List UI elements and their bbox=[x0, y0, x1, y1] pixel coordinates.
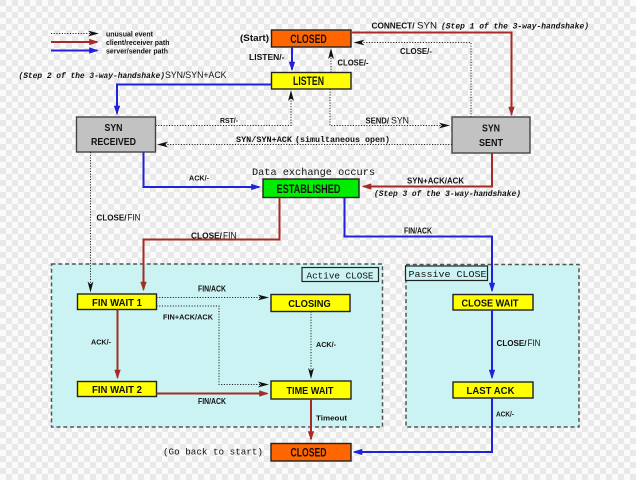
label CONNECT/SYN (Step 1 of the 3-way-handshake) bbox=[372, 21, 590, 32]
label (Go back to start) bbox=[163, 446, 263, 457]
svg-text:CLOSING: CLOSING bbox=[288, 299, 331, 310]
svg-text:ACK/-: ACK/- bbox=[91, 337, 111, 346]
label Timeout bbox=[316, 414, 348, 423]
label box Active CLOSE bbox=[302, 268, 379, 282]
wire FIN/ACK: FIN WAIT 1 to CLOSING (dotted) bbox=[157, 297, 268, 299]
state box LAST ACK bbox=[453, 382, 533, 398]
label box Passive CLOSE bbox=[406, 266, 488, 281]
svg-text:RECEIVED: RECEIVED bbox=[91, 136, 136, 148]
svg-text:FIN/ACK: FIN/ACK bbox=[198, 285, 226, 294]
svg-text:(Start): (Start) bbox=[240, 33, 269, 44]
wire ACK/-: LAST ACK to CLOSED (blue) bbox=[355, 398, 493, 452]
label SYN/SYN+ACK (simultaneous open) bbox=[236, 135, 390, 145]
label FIN+ACK/ACK bbox=[163, 312, 214, 321]
label ACK/- (left) bbox=[189, 174, 209, 183]
svg-text:FIN/ACK: FIN/ACK bbox=[198, 397, 226, 406]
svg-text:CLOSE/: CLOSE/ bbox=[497, 339, 528, 348]
svg-text:FIN/ACK: FIN/ACK bbox=[404, 227, 432, 236]
svg-text:FIN: FIN bbox=[223, 230, 237, 240]
label Data exchange occurs bbox=[252, 167, 375, 179]
svg-text:SYN+ACK/ACK: SYN+ACK/ACK bbox=[407, 175, 464, 185]
label (Start) bbox=[240, 33, 269, 44]
svg-text:CLOSED: CLOSED bbox=[291, 446, 327, 460]
label SYN+ACK/ACK bbox=[407, 175, 464, 185]
wire CLOSE/FIN: ESTABLISHED to FIN WAIT 1 (red) bbox=[144, 198, 280, 290]
label ACK/- (CLOSING-TW) bbox=[316, 340, 336, 349]
svg-text:LISTEN/-: LISTEN/- bbox=[249, 52, 285, 62]
state box TIME WAIT bbox=[271, 381, 351, 399]
state box SYN RECEIVED bbox=[77, 117, 156, 152]
label ACK/- (LAST ACK) bbox=[496, 410, 514, 419]
state box SYN SENT bbox=[452, 117, 530, 153]
label FIN/ACK (FW2-TW) bbox=[198, 397, 226, 406]
label CLOSE/FIN (far left) bbox=[97, 213, 141, 223]
svg-text:FIN WAIT 2: FIN WAIT 2 bbox=[92, 385, 142, 396]
legend unusual event arrow bbox=[51, 31, 154, 38]
wire CLOSE/FIN: SYN RECEIVED to FIN WAIT 1 (dotted) bbox=[90, 152, 92, 291]
svg-text:ACK/-: ACK/- bbox=[316, 340, 336, 349]
wire FIN/ACK: ESTABLISHED to CLOSE WAIT (blue) bbox=[345, 198, 493, 291]
wire SYN/SYN+ACK (simultaneous open): SYN SENT to SYN RECEIVED (dotted) bbox=[159, 144, 452, 146]
label CLOSE/- (right) bbox=[400, 47, 432, 56]
label FIN/ACK (FW1-CLOSING) bbox=[198, 285, 226, 294]
state box FIN WAIT 1 bbox=[78, 294, 157, 310]
svg-text:SYN/SYN+ACK: SYN/SYN+ACK bbox=[165, 70, 227, 81]
svg-text:FIN: FIN bbox=[528, 338, 541, 348]
svg-text:(Go back to start): (Go back to start) bbox=[163, 446, 263, 457]
wire LISTEN/-: CLOSED to LISTEN (blue) bbox=[291, 47, 293, 70]
svg-text:TIME WAIT: TIME WAIT bbox=[287, 386, 334, 397]
svg-text:SYN: SYN bbox=[105, 122, 123, 134]
state box CLOSED (bottom) bbox=[271, 444, 351, 462]
state box ESTABLISHED bbox=[263, 179, 359, 198]
state box CLOSING bbox=[271, 295, 350, 312]
wire ACK/-: FIN WAIT 1 to FIN WAIT 2 (red) bbox=[117, 310, 119, 378]
wire CLOSE/-: SYN SENT to CLOSED (dotted) bbox=[356, 43, 472, 118]
wire ACK/-: CLOSING to TIME WAIT (dotted) bbox=[310, 312, 312, 378]
svg-text:(simultaneous open): (simultaneous open) bbox=[295, 135, 390, 145]
label (Step 3 of the 3-way-handshake) bbox=[374, 190, 521, 199]
state box FIN WAIT 2 bbox=[78, 382, 157, 397]
label ACK/- (FW1-FW2) bbox=[91, 337, 111, 346]
container Active CLOSE bbox=[52, 264, 383, 427]
wire CONNECT/SYN: CLOSED to SYN SENT (red) bbox=[351, 33, 512, 115]
wire FIN+ACK/ACK: FIN WAIT 1 to TIME WAIT (dotted) bbox=[157, 306, 268, 385]
wire ACK/-: SYN RECEIVED to ESTABLISHED (blue) bbox=[144, 152, 260, 187]
svg-text:ESTABLISHED: ESTABLISHED bbox=[277, 184, 341, 196]
svg-text:FIN: FIN bbox=[128, 213, 141, 223]
label FIN/ACK (upper right) bbox=[404, 227, 432, 236]
svg-text:SYN: SYN bbox=[417, 21, 437, 32]
svg-text:SENT: SENT bbox=[479, 137, 503, 149]
svg-text:CLOSE/: CLOSE/ bbox=[97, 214, 128, 223]
wire SYN/SYN+ACK: LISTEN to SYN RECEIVED (blue) bbox=[117, 85, 272, 114]
container Passive CLOSE bbox=[406, 265, 579, 428]
svg-text:FIN WAIT 1: FIN WAIT 1 bbox=[92, 298, 142, 309]
wire SYN+ACK/ACK: SYN SENT to ESTABLISHED (red) bbox=[364, 153, 493, 187]
svg-text:(Step 1 of the 3-way-handshake: (Step 1 of the 3-way-handshake) bbox=[441, 23, 589, 32]
svg-text:Passive CLOSE: Passive CLOSE bbox=[409, 269, 487, 280]
svg-text:client/receiver path: client/receiver path bbox=[106, 40, 170, 47]
label SEND/SYN bbox=[366, 115, 410, 125]
state box CLOSE WAIT bbox=[453, 295, 533, 311]
svg-text:RST/-: RST/- bbox=[220, 116, 238, 125]
svg-text:SYN: SYN bbox=[391, 115, 409, 125]
svg-text:(Step 2 of the 3-way-handshake: (Step 2 of the 3-way-handshake) bbox=[19, 72, 166, 81]
wire SEND/SYN: LISTEN to SYN SENT (dotted) bbox=[330, 89, 448, 126]
label CLOSE/- (left) bbox=[338, 59, 369, 68]
label CLOSE/FIN (passive) bbox=[497, 338, 541, 348]
svg-text:SEND/: SEND/ bbox=[366, 116, 390, 125]
svg-text:SYN: SYN bbox=[482, 123, 500, 135]
svg-text:ACK/-: ACK/- bbox=[496, 410, 514, 419]
svg-text:LAST ACK: LAST ACK bbox=[467, 386, 516, 397]
legend server/sender path arrow bbox=[51, 48, 168, 55]
svg-text:SYN/SYN+ACK: SYN/SYN+ACK bbox=[236, 135, 292, 145]
svg-text:Active CLOSE: Active CLOSE bbox=[307, 270, 374, 281]
wire Timeout: TIME WAIT to CLOSED (red) bbox=[310, 399, 312, 439]
svg-text:LISTEN: LISTEN bbox=[293, 74, 324, 88]
svg-text:ACK/-: ACK/- bbox=[189, 174, 209, 183]
state box LISTEN bbox=[272, 73, 352, 90]
state box CLOSED (top) bbox=[272, 30, 352, 47]
svg-text:CLOSE/-: CLOSE/- bbox=[400, 47, 432, 56]
label RST/- bbox=[220, 116, 238, 125]
svg-text:server/sender path: server/sender path bbox=[106, 48, 168, 55]
label CLOSE/FIN (middle) bbox=[191, 230, 237, 240]
svg-text:Data exchange occurs: Data exchange occurs bbox=[252, 167, 375, 179]
legend client/receiver path arrow bbox=[51, 40, 170, 47]
svg-text:Timeout: Timeout bbox=[316, 414, 348, 423]
svg-text:CLOSED: CLOSED bbox=[290, 32, 327, 46]
wire FIN/ACK: FIN WAIT 2 to TIME WAIT (red) bbox=[157, 393, 268, 395]
wire CLOSE/-: LISTEN to CLOSED (dotted) bbox=[330, 50, 332, 73]
label LISTEN/- bbox=[249, 52, 285, 62]
svg-text:CLOSE/: CLOSE/ bbox=[191, 230, 223, 240]
label (Step 2 of the 3-way-handshake)SYN/SYN+ACK bbox=[19, 70, 228, 81]
svg-text:(Step 3 of the 3-way-handshake: (Step 3 of the 3-way-handshake) bbox=[374, 190, 521, 199]
svg-text:CONNECT/: CONNECT/ bbox=[372, 22, 416, 31]
svg-text:CLOSE/-: CLOSE/- bbox=[338, 59, 369, 68]
wire RST/-: SYN RECEIVED to LISTEN (dotted) bbox=[156, 92, 292, 126]
svg-text:unusual event: unusual event bbox=[106, 31, 154, 38]
svg-text:CLOSE WAIT: CLOSE WAIT bbox=[462, 298, 519, 309]
wire CLOSE/FIN: CLOSE WAIT to LAST ACK (blue) bbox=[491, 310, 493, 378]
svg-text:FIN+ACK/ACK: FIN+ACK/ACK bbox=[163, 312, 214, 321]
